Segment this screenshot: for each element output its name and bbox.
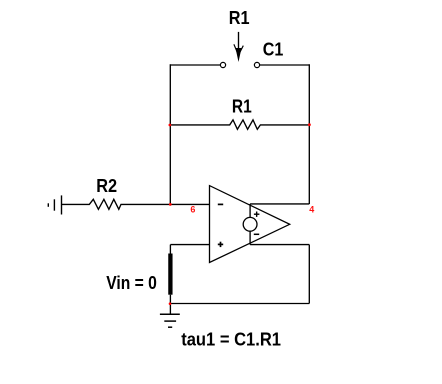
ground bar 3 <box>168 326 172 328</box>
arrow R1 pointer right barb <box>239 46 243 54</box>
junction dot node 6 input <box>169 203 172 206</box>
ground stem <box>169 304 171 315</box>
svg-text:Vin = 0: Vin = 0 <box>106 272 157 294</box>
op-amp inverting input minus sign <box>218 203 223 205</box>
ground bar 1 <box>160 313 180 315</box>
arrow R1 pointer head <box>236 48 242 62</box>
wire right vertical upper (node 4) <box>308 64 310 204</box>
battery V1 long bar <box>61 195 63 214</box>
internal source stem lower <box>249 231 251 244</box>
op-amp U1 triangle <box>210 186 290 263</box>
battery V1 short bar <box>47 203 49 207</box>
arrow R1 pointer left barb <box>234 44 238 54</box>
Vin source stub bottom <box>169 295 171 304</box>
internal dependent source circle <box>243 217 257 231</box>
wire bottom horizontal <box>170 303 309 305</box>
wire plus input horizontal <box>170 244 209 246</box>
wire top-right horizontal from switch <box>260 64 310 66</box>
battery V1 middle bar <box>53 199 55 210</box>
internal source stem upper <box>249 204 251 218</box>
ground bar 2 <box>164 320 176 322</box>
svg-text:R1: R1 <box>229 7 250 28</box>
Vin source thick bar <box>168 254 172 295</box>
op-amp non-inverting input plus sign <box>218 242 223 247</box>
internal source plus sign <box>254 212 260 217</box>
junction dot node 6 left R1 <box>169 124 172 127</box>
wire top-left horizontal to switch <box>170 64 220 66</box>
resistor R2 <box>62 199 210 209</box>
wire output top to node 4 <box>250 203 309 205</box>
arrow R1 pointer shaft <box>238 32 240 54</box>
switch S1 left terminal circle <box>220 62 225 67</box>
wire left vertical <box>169 64 171 204</box>
svg-text:C1: C1 <box>263 39 284 60</box>
junction dot node 4 right R1 <box>308 123 311 126</box>
wire right vertical lower <box>308 245 310 304</box>
resistor R1 <box>170 120 309 129</box>
svg-text:4: 4 <box>309 205 314 215</box>
svg-text:6: 6 <box>190 205 195 215</box>
svg-text:R1: R1 <box>232 96 252 117</box>
internal source minus sign <box>254 233 259 235</box>
switch S1 right terminal circle <box>254 62 259 67</box>
Vin source stub top <box>169 245 171 254</box>
svg-text:tau1 = C1.R1: tau1 = C1.R1 <box>181 329 281 350</box>
svg-text:R2: R2 <box>96 175 117 196</box>
junction dot ground node <box>169 302 172 305</box>
wire output bottom <box>250 244 309 246</box>
